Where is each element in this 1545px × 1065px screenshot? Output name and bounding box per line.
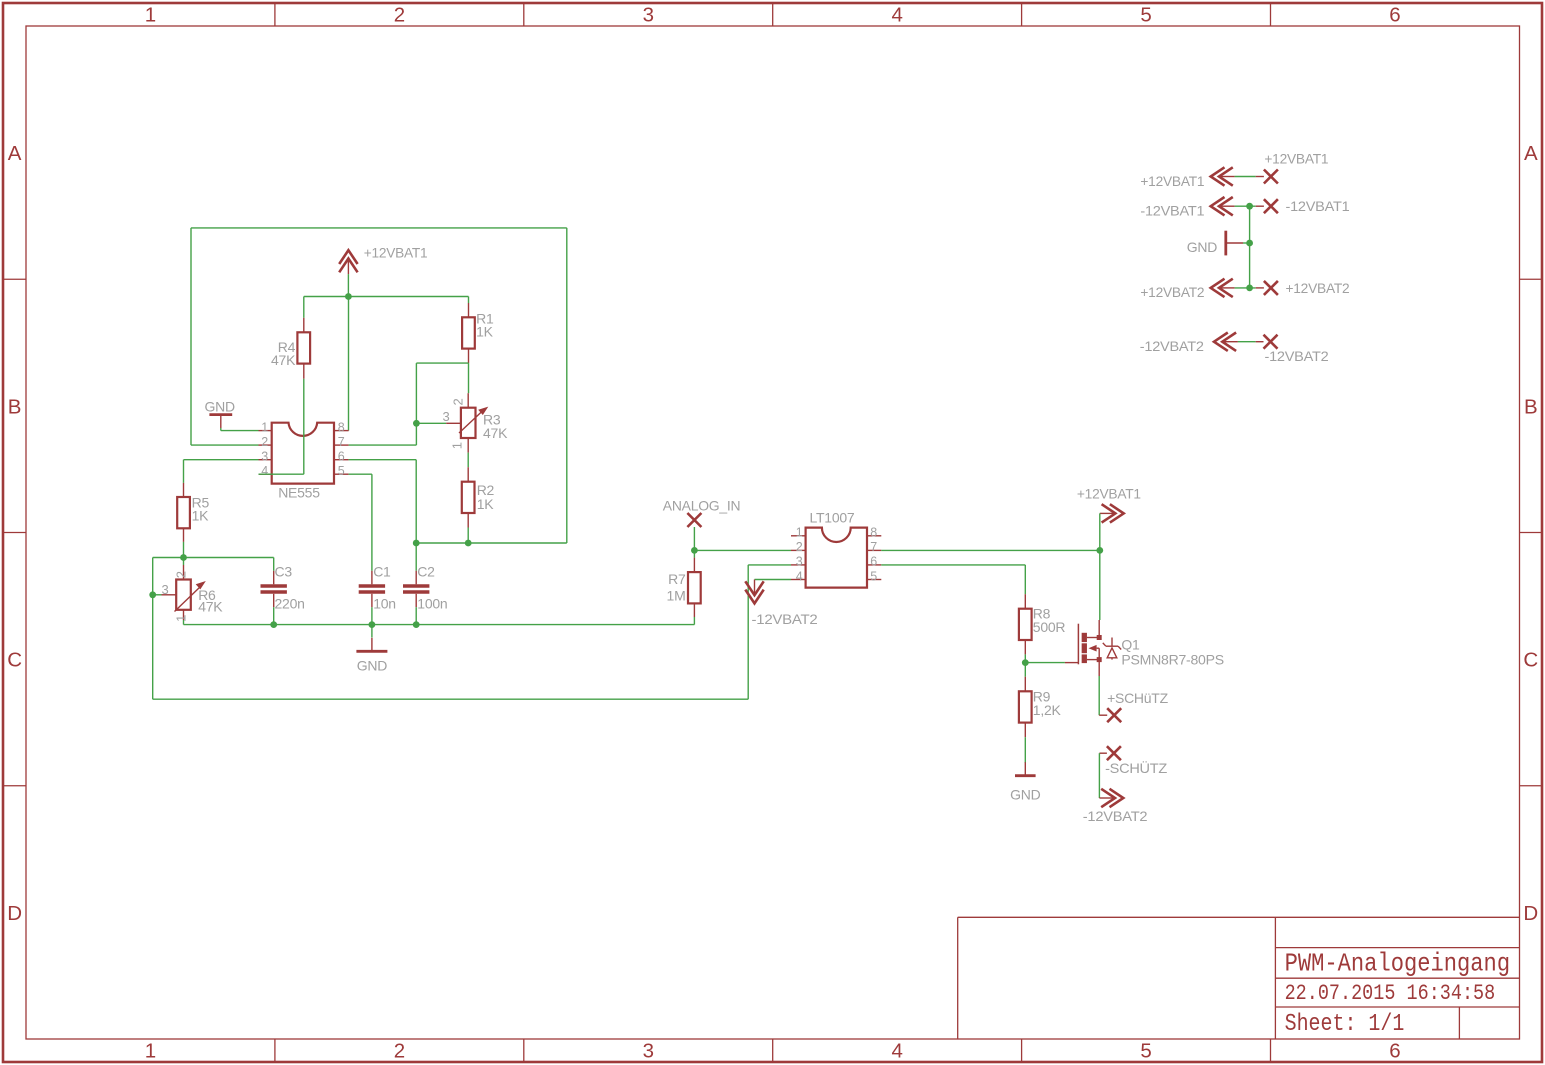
- svg-text:47K: 47K: [483, 425, 508, 441]
- svg-text:C3: C3: [275, 564, 293, 580]
- wire LT1007 pin6 to R8: [881, 565, 1025, 594]
- label 47K (R4): [271, 352, 296, 368]
- svg-text:10n: 10n: [373, 595, 396, 611]
- svg-text:PWM-Analogeingang: PWM-Analogeingang: [1285, 949, 1511, 979]
- wire node to NE555 pin7: [349, 423, 417, 445]
- label -12VBAT1 cluster left: [1140, 202, 1204, 218]
- label 1 (R6 pin1): [173, 615, 188, 622]
- svg-text:-12VBAT2: -12VBAT2: [752, 611, 818, 627]
- svg-text:D: D: [7, 902, 22, 925]
- svg-text:7: 7: [870, 540, 877, 554]
- capacitor C1: [359, 586, 385, 592]
- svg-text:2: 2: [394, 4, 405, 27]
- svg-text:100n: 100n: [417, 595, 447, 611]
- svg-text:4: 4: [891, 1040, 902, 1063]
- svg-text:Q1: Q1: [1121, 637, 1140, 653]
- resistor R8: [1019, 609, 1032, 640]
- svg-text:2: 2: [261, 435, 268, 449]
- wire loop top horizontal: [191, 227, 567, 229]
- ground GND (R9): [1015, 762, 1036, 776]
- svg-text:1K: 1K: [477, 496, 495, 512]
- junction -12VBAT1 cluster: [1246, 203, 1253, 210]
- svg-text:-12VBAT2: -12VBAT2: [1265, 348, 1329, 364]
- label 220n (C3): [275, 595, 305, 611]
- wire node to C3: [273, 558, 275, 571]
- wire loop bottom horizontal: [416, 542, 567, 544]
- wire bottom long wire: [153, 698, 749, 700]
- label C2: [417, 564, 435, 580]
- label R2: [477, 482, 495, 498]
- label 1K (R5): [192, 508, 210, 524]
- svg-text:A: A: [8, 142, 22, 165]
- potentiometer R6: [176, 580, 191, 610]
- label +12VBAT1 cluster right: [1264, 150, 1328, 166]
- ground GND (NE555 pin1): [209, 415, 232, 428]
- svg-text:-12VBAT1: -12VBAT1: [1140, 202, 1204, 218]
- svg-text:R7: R7: [668, 571, 686, 587]
- junction C2 bottom: [413, 621, 420, 628]
- svg-text:1,2K: 1,2K: [1033, 702, 1062, 718]
- wire loop left vertical: [191, 228, 259, 445]
- label R6: [198, 587, 216, 603]
- svg-text:2: 2: [173, 571, 188, 578]
- wire node to R3 pin3: [416, 422, 446, 424]
- wire GND to NE555 pin1: [221, 428, 259, 431]
- wire node to R6 pin2: [183, 558, 185, 566]
- labels LT1007 left pin numbers: [796, 526, 803, 584]
- capacitor C3: [261, 586, 287, 592]
- svg-text:7: 7: [338, 435, 345, 449]
- label -12VBAT1 cluster right: [1286, 198, 1350, 214]
- label 100n (C2): [417, 595, 447, 611]
- wire cluster spine: [1249, 206, 1251, 288]
- svg-text:GND: GND: [205, 398, 236, 414]
- potentiometer R3: [461, 408, 476, 438]
- title Sheet: 1/1: [1285, 1011, 1405, 1038]
- wire node to R7: [693, 550, 695, 557]
- svg-text:+12VBAT1: +12VBAT1: [364, 245, 428, 261]
- junction +12V rail: [345, 293, 352, 300]
- capacitor C2: [403, 586, 429, 592]
- svg-text:PSMN8R7-80PS: PSMN8R7-80PS: [1121, 651, 1224, 667]
- svg-text:3: 3: [643, 1040, 654, 1063]
- wire -12VBAT1 cluster: [1235, 205, 1256, 207]
- svg-text:C: C: [7, 649, 22, 672]
- power +12VBAT2 arrow (left, cluster): [1211, 279, 1235, 297]
- label R9: [1033, 688, 1051, 704]
- wire R6 pin1 to bottom rail: [184, 620, 695, 625]
- wire R1 bottom to R3 top/pin7 net: [416, 363, 468, 423]
- svg-text:3: 3: [643, 4, 654, 27]
- label +12VBAT1 cluster left: [1140, 173, 1204, 189]
- label 3 (R6 pin3): [162, 582, 169, 597]
- labels NE555 right pin numbers: [338, 420, 345, 478]
- svg-text:4: 4: [261, 464, 268, 478]
- svg-text:+12VBAT2: +12VBAT2: [1286, 280, 1350, 296]
- title date 22.07.2015 16:34:58: [1285, 981, 1496, 1006]
- label R4: [278, 339, 296, 355]
- wire R6 wiper to left branch: [153, 594, 162, 596]
- svg-text:Sheet: 1/1: Sheet: 1/1: [1285, 1011, 1405, 1038]
- label 3 (R3 pin3): [443, 409, 450, 424]
- label ANALOG_IN: [663, 498, 741, 514]
- wire LT1007 pin7 to +12V node: [881, 549, 1100, 551]
- wire NE555 pin6 to bottom net: [349, 460, 417, 543]
- svg-text:GND: GND: [1010, 786, 1041, 802]
- ic NE555 U1: [272, 423, 334, 484]
- pin X -12VBAT1 cluster: [1256, 199, 1278, 213]
- svg-text:1: 1: [261, 420, 268, 434]
- label 1K (R1): [476, 324, 494, 340]
- label -12VBAT2 (bottom): [1083, 808, 1148, 824]
- svg-text:B: B: [1524, 395, 1538, 418]
- svg-text:3: 3: [443, 409, 450, 424]
- ic LT1007 pins: [791, 536, 881, 580]
- label 47K (R6): [198, 599, 223, 615]
- power +12VBAT1 arrow (up): [339, 250, 357, 274]
- svg-text:A: A: [1524, 142, 1538, 165]
- svg-text:1K: 1K: [192, 508, 210, 524]
- svg-text:5: 5: [338, 464, 345, 478]
- label 1M (R7): [667, 588, 686, 604]
- label 2 (R3 pin2): [450, 399, 465, 406]
- svg-text:1: 1: [145, 4, 156, 27]
- svg-text:NE555: NE555: [278, 485, 320, 501]
- pin X -12VBAT2 cluster: [1256, 335, 1278, 349]
- op-ic NE555 pins: [259, 431, 349, 475]
- wire +12VBAT1 arrow to node: [347, 274, 349, 296]
- svg-text:6: 6: [1389, 1040, 1400, 1063]
- power -12VBAT1 arrow (left, cluster): [1211, 197, 1235, 215]
- wire R5 bottom to node: [183, 542, 185, 558]
- label C3: [275, 564, 293, 580]
- label GND (NE555 pin1): [205, 398, 236, 414]
- label R5: [192, 495, 210, 511]
- resistor R9 pins: [1024, 677, 1026, 738]
- wire gate node to Q1 gate: [1025, 662, 1065, 664]
- wire node horizontal: [153, 557, 274, 559]
- svg-text:6: 6: [338, 450, 345, 464]
- wire R8 bottom to gate node: [1024, 654, 1026, 662]
- wire R3 pin1 to R2: [467, 453, 469, 468]
- svg-text:-12VBAT2: -12VBAT2: [1140, 338, 1204, 354]
- junction +12V node (Q1): [1096, 547, 1103, 554]
- capacitor C2 pins: [415, 571, 417, 607]
- junction C1 bottom: [369, 621, 376, 628]
- resistor R2: [462, 482, 475, 513]
- wire +12VBAT2 cluster: [1235, 287, 1256, 289]
- svg-text:+12VBAT1: +12VBAT1: [1264, 150, 1328, 166]
- svg-text:2: 2: [450, 399, 465, 406]
- svg-text:1: 1: [796, 526, 803, 540]
- resistor R4: [297, 332, 310, 363]
- label 10n (C1): [373, 595, 396, 611]
- wire LT1007 pin4 to supply: [755, 579, 792, 581]
- svg-text:C: C: [1523, 649, 1538, 672]
- resistor R9: [1019, 691, 1032, 722]
- wire -SCHUETZ down: [1098, 753, 1100, 798]
- svg-text:-12VBAT1: -12VBAT1: [1286, 198, 1350, 214]
- node +SCHUETZ pin: [1099, 708, 1121, 722]
- pin X +12VBAT2 cluster: [1256, 281, 1278, 295]
- power -12VBAT2 arrow (down): [745, 580, 763, 604]
- label GND (R9): [1010, 786, 1041, 802]
- resistor R5: [177, 497, 190, 528]
- resistor R7: [688, 572, 701, 603]
- svg-text:47K: 47K: [271, 352, 296, 368]
- labels NE555 left pin numbers: [261, 420, 268, 478]
- svg-text:6: 6: [1389, 4, 1400, 27]
- resistor R1: [462, 317, 475, 348]
- svg-text:4: 4: [891, 4, 902, 27]
- label 2 (R6 pin2): [173, 571, 188, 578]
- resistor R5 pins: [183, 483, 185, 542]
- wire NE555 pin3 to R5: [184, 460, 259, 483]
- wire NE555 pin5 to C1: [349, 474, 372, 571]
- resistor R2 pins: [467, 467, 469, 527]
- potentiometer R6 pins: [162, 565, 184, 620]
- label R1: [476, 310, 494, 326]
- svg-text:C1: C1: [373, 564, 391, 580]
- svg-text:220n: 220n: [275, 595, 305, 611]
- wire gate node to R9: [1024, 663, 1026, 677]
- svg-text:2: 2: [394, 1040, 405, 1063]
- junction R3 pin3 node: [413, 420, 420, 427]
- svg-text:ANALOG_IN: ANALOG_IN: [663, 498, 741, 514]
- svg-text:1: 1: [173, 615, 188, 622]
- wire C2 to bottom rail: [415, 607, 417, 624]
- label R7: [668, 571, 686, 587]
- label LT1007: [810, 510, 855, 526]
- svg-text:1M: 1M: [667, 588, 686, 604]
- label 1K (R2): [477, 496, 495, 512]
- svg-text:LT1007: LT1007: [810, 510, 855, 526]
- wire loop right vertical: [566, 228, 568, 543]
- wire +12VBAT1 cluster: [1235, 176, 1256, 178]
- resistor R1 pins: [468, 303, 470, 363]
- junction gate node: [1022, 659, 1029, 666]
- wire node to LT1007 pin2: [694, 549, 791, 551]
- pin X +12VBAT1 cluster: [1256, 170, 1278, 184]
- wire C3 to bottom rail: [273, 607, 275, 624]
- label Q1: [1121, 637, 1140, 653]
- junction C3 bottom: [270, 621, 277, 628]
- svg-text:2: 2: [796, 540, 803, 554]
- ground GND (C1): [356, 638, 387, 652]
- power +12VBAT1 arrow (right): [1100, 504, 1124, 522]
- wire ANALOG_IN down: [693, 527, 695, 550]
- junction ANALOG_IN node: [691, 547, 698, 554]
- wire R9 bottom to GND: [1024, 737, 1026, 763]
- svg-text:22.07.2015 16:34:58: 22.07.2015 16:34:58: [1285, 981, 1496, 1006]
- label -12VBAT2 cluster left: [1140, 338, 1204, 354]
- svg-text:+12VBAT1: +12VBAT1: [1140, 173, 1204, 189]
- svg-text:-12VBAT2: -12VBAT2: [1083, 808, 1148, 824]
- title block: [958, 917, 1520, 1039]
- svg-text:3: 3: [261, 450, 268, 464]
- svg-text:500R: 500R: [1033, 619, 1066, 635]
- wire +12V arrow down: [1099, 513, 1101, 550]
- node ANALOG_IN pin X: [687, 513, 701, 527]
- svg-text:GND: GND: [357, 658, 388, 674]
- wire rail to R1: [468, 297, 470, 304]
- transistor Q1 (PSMN8R7-80PS MOSFET): [1065, 620, 1121, 676]
- title text PWM-Analogeingang: [1285, 949, 1511, 979]
- svg-text:3: 3: [162, 582, 169, 597]
- power +12VBAT1 arrow (left, cluster): [1211, 167, 1235, 185]
- wire C1 to bottom rail: [371, 607, 373, 624]
- wire +12V rail horizontal: [304, 296, 469, 298]
- resistor R7 pins: [693, 558, 695, 617]
- power -12VBAT2 arrow (right): [1099, 789, 1123, 807]
- label +SCHuETZ: [1107, 690, 1168, 706]
- wire -12VBAT2 cluster: [1238, 341, 1256, 343]
- svg-text:+SCHüTZ: +SCHüTZ: [1107, 690, 1168, 706]
- resistor R8 pins: [1024, 594, 1026, 654]
- power -12VBAT2 arrow (left, cluster): [1214, 333, 1238, 351]
- ground GND (cluster): [1226, 231, 1243, 256]
- wire rail to R4: [303, 297, 305, 318]
- svg-text:1: 1: [145, 1040, 156, 1063]
- wire C1 node to GND: [371, 625, 373, 638]
- wire +12V rail to NE555 pin8: [348, 297, 350, 431]
- svg-text:8: 8: [338, 420, 345, 434]
- capacitor C1 pins: [371, 571, 373, 607]
- label -12VBAT2 (LT1007): [752, 611, 818, 627]
- junction pin6 net bottom: [413, 540, 420, 547]
- label C1: [373, 564, 391, 580]
- svg-text:GND: GND: [1187, 239, 1218, 255]
- svg-text:5: 5: [870, 569, 877, 583]
- label R3: [483, 412, 501, 428]
- svg-text:47K: 47K: [198, 599, 223, 615]
- svg-text:+12VBAT2: +12VBAT2: [1140, 284, 1204, 300]
- junction GND cluster: [1246, 240, 1253, 247]
- svg-text:8: 8: [870, 526, 877, 540]
- label GND (C1): [357, 658, 388, 674]
- labels LT1007 right pin numbers: [870, 526, 877, 584]
- junction +12VBAT2 cluster: [1246, 285, 1253, 292]
- label R8: [1033, 606, 1051, 622]
- label -SCHUETZ: [1105, 759, 1168, 776]
- label 47K (R3): [483, 425, 508, 441]
- label 1,2K (R9): [1033, 702, 1062, 718]
- svg-text:1: 1: [449, 442, 464, 449]
- label +12VBAT2 cluster left: [1140, 284, 1204, 300]
- svg-text:1K: 1K: [476, 324, 494, 340]
- wire GND to cluster spine: [1243, 242, 1250, 244]
- junction R6 wiper node: [149, 591, 156, 598]
- wire left branch down: [152, 558, 154, 700]
- wire Q1 source down: [1098, 676, 1100, 715]
- ic LT1007 U2: [806, 528, 867, 588]
- svg-text:4: 4: [796, 569, 803, 583]
- junction R2 bottom: [465, 540, 472, 547]
- svg-text:3: 3: [796, 555, 803, 569]
- label NE555: [278, 485, 320, 501]
- svg-text:-SCHÜTZ: -SCHÜTZ: [1105, 759, 1168, 776]
- node -SCHUETZ pin: [1099, 746, 1121, 760]
- label GND (cluster): [1187, 239, 1218, 255]
- wire R7 bottom to bottom rail: [693, 617, 695, 625]
- wire pin6 net to C2: [415, 543, 417, 571]
- capacitor C3 pins: [273, 571, 275, 607]
- svg-text:B: B: [8, 395, 22, 418]
- label PSMN8R7-80PS (Q1): [1121, 651, 1224, 667]
- potentiometer R6 wiper arrow: [175, 581, 206, 612]
- svg-text:C2: C2: [417, 564, 435, 580]
- potentiometer R3 pins: [446, 393, 468, 452]
- label +12VBAT2 cluster right: [1286, 280, 1350, 296]
- label 500R (R8): [1033, 619, 1066, 635]
- svg-text:D: D: [1523, 902, 1538, 925]
- junction R5/R6 node: [180, 554, 187, 561]
- label +12VBAT1 (NE555): [364, 245, 428, 261]
- potentiometer R3 wiper arrow: [459, 407, 488, 433]
- svg-text:+12VBAT1: +12VBAT1: [1077, 486, 1141, 502]
- svg-text:5: 5: [1140, 1040, 1151, 1063]
- wire +12V node to Q1 drain: [1099, 550, 1101, 620]
- label 1 (R3 pin1): [449, 442, 464, 449]
- resistor R4 pins: [303, 318, 305, 379]
- svg-text:5: 5: [1140, 4, 1151, 27]
- label +12VBAT1 (Q1): [1077, 486, 1141, 502]
- wire R2 bottom to net: [467, 528, 469, 544]
- svg-text:6: 6: [870, 555, 877, 569]
- wire bottom long wire to LT1007 pin3: [748, 565, 791, 699]
- wire R4 to NE555 pin4: [259, 379, 304, 474]
- label -12VBAT2 cluster right: [1265, 348, 1329, 364]
